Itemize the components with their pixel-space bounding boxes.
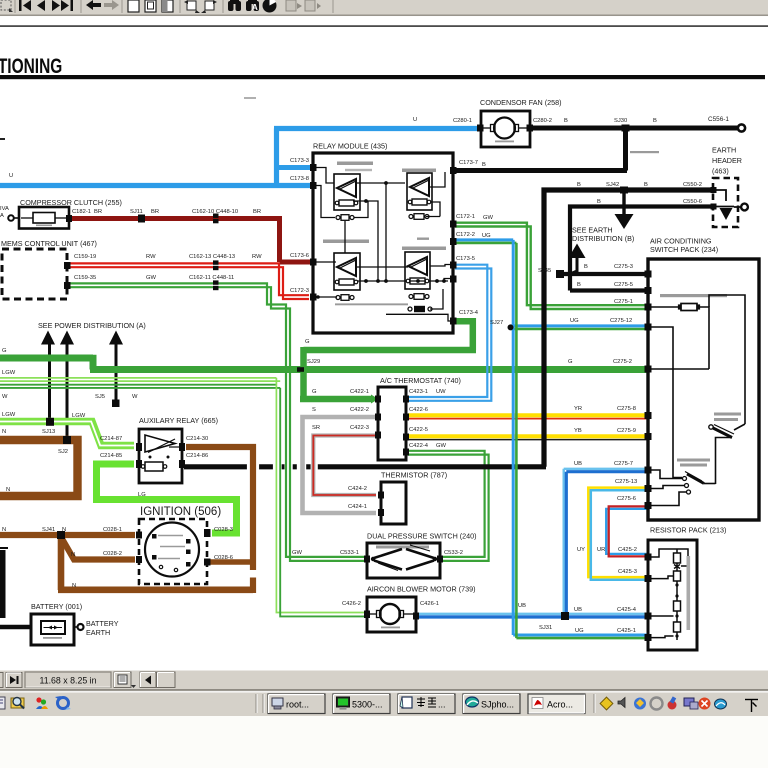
svg-text:C533-1: C533-1	[340, 550, 359, 556]
switch pack fuse	[651, 295, 745, 478]
svg-text:C214-85: C214-85	[100, 453, 122, 459]
junction SJ29 tick	[297, 367, 304, 372]
compressor clutch box (255)	[14, 207, 69, 229]
svg-text:C425-1: C425-1	[617, 628, 636, 634]
svg-text:SJ27: SJ27	[490, 320, 503, 326]
svg-text:C275-9: C275-9	[617, 428, 636, 434]
svg-text:C550-2: C550-2	[683, 182, 702, 188]
wire BR dark red: compressor clutch to relay C173-6	[69, 219, 310, 263]
relay sub-unit R4	[405, 252, 430, 289]
svg-text:...: ...	[438, 700, 446, 710]
svg-text:SJ11: SJ11	[130, 209, 143, 215]
wire U blue: left edge to condenser fan C280-1	[0, 129, 477, 189]
page size box 11.68 x 8.25 in	[25, 672, 111, 688]
svg-text:C275-12: C275-12	[610, 318, 632, 324]
svg-text:C533-2: C533-2	[444, 550, 463, 556]
svg-text:UR: UR	[597, 547, 605, 553]
svg-text:B: B	[644, 182, 648, 188]
A/C thermostat (740) box	[378, 387, 406, 460]
svg-text:SEE POWER DISTRIBUTION (A): SEE POWER DISTRIBUTION (A)	[38, 321, 146, 330]
wire GW pair: thermostat C422-4 loop to dual pressure C533-2	[408, 451, 485, 557]
wire N brown: SJ41 down and bottom loop	[58, 537, 253, 590]
toolbar nav buttons first/prev/next/last page	[19, 0, 73, 11]
svg-text:N: N	[62, 527, 66, 533]
svg-text:SJ5: SJ5	[95, 394, 105, 400]
svg-text:B: B	[564, 118, 568, 124]
toolbar rotate/zoom icons	[187, 1, 214, 10]
svg-text:C425-4: C425-4	[617, 607, 637, 613]
wire N brown: left U loop	[0, 440, 78, 496]
svg-text:TIONING: TIONING	[0, 53, 62, 77]
taskbar buttons	[268, 694, 758, 714]
junction SJ31	[561, 612, 569, 620]
svg-text:C425-2: C425-2	[618, 547, 637, 553]
svg-text:C275-1: C275-1	[614, 299, 633, 305]
svg-text:C422-6: C422-6	[409, 407, 428, 413]
svg-text:C173-6: C173-6	[290, 253, 309, 259]
scrollbar left arrow + thumb	[140, 672, 156, 688]
wire labels	[0, 116, 729, 634]
svg-text:C425-3: C425-3	[618, 569, 637, 575]
title rule	[0, 75, 765, 79]
junction SJ11	[138, 215, 145, 223]
connector C556-1 ring terminal	[738, 124, 745, 131]
MEMS control unit (467) dashed box	[2, 249, 67, 299]
svg-text:A: A	[252, 3, 258, 12]
wire UG horizontals: SJ31 row to C425-1	[513, 634, 648, 637]
svg-text:C214-87: C214-87	[100, 436, 122, 442]
earth header (463) dashed box	[713, 178, 741, 227]
svg-text:SR: SR	[312, 425, 320, 431]
junction SJ42	[620, 187, 628, 194]
svg-text:N: N	[2, 527, 6, 533]
svg-text:C028-3: C028-3	[214, 527, 233, 533]
junction SJ13	[46, 418, 54, 426]
svg-text:C162-11 C448-11: C162-11 C448-11	[189, 275, 234, 281]
wire S grey: thermostat C422-2 loop to thermistor C424-1	[303, 417, 377, 513]
svg-text:B: B	[482, 162, 486, 168]
svg-text:GW: GW	[436, 443, 447, 449]
button untitled notepad (CJK faked)	[398, 694, 455, 714]
junction SJ30	[622, 125, 630, 132]
svg-text:THERMISTOR (787): THERMISTOR (787)	[381, 471, 447, 480]
svg-text:U: U	[9, 173, 13, 179]
wire N brown: SJ41 diagonal to C028-2	[61, 537, 135, 560]
svg-text:RW: RW	[146, 254, 156, 260]
wire U stub to relay C173-3	[277, 165, 312, 170]
wire LG bright green: aux relay C214-85 loop to ignition C028-3	[97, 464, 237, 533]
battery (001) box	[31, 614, 74, 645]
svg-text:C275-5: C275-5	[614, 282, 633, 288]
svg-text:C214-86: C214-86	[186, 453, 208, 459]
svg-text:C172-1: C172-1	[456, 214, 475, 220]
wire U stub to relay C173-8	[277, 183, 312, 188]
svg-text:UB: UB	[574, 461, 582, 467]
svg-text:(463): (463)	[712, 167, 729, 176]
wire UB: switch pack C275-7 stub	[564, 468, 648, 470]
quicklaunch icon 1 (cut)	[0, 697, 5, 709]
svg-text:UB: UB	[574, 607, 582, 613]
svg-text:C275-6: C275-6	[617, 496, 636, 502]
svg-text:C173-3: C173-3	[290, 158, 309, 164]
svg-text:B: B	[577, 282, 581, 288]
svg-text:SWITCH PACK (234): SWITCH PACK (234)	[650, 245, 718, 254]
button Acro (pressed)	[528, 694, 585, 714]
svg-text:SJ31: SJ31	[539, 625, 552, 631]
CJK IME glyph (faked strokes)	[745, 700, 758, 713]
svg-text:B: B	[653, 118, 657, 124]
svg-text:C422-4: C422-4	[409, 443, 429, 449]
dual pressure switch (240) box	[367, 543, 440, 578]
svg-text:AIRCON BLOWER MOTOR (739): AIRCON BLOWER MOTOR (739)	[367, 585, 476, 594]
wire G green main: left edge to switch pack C275-2	[0, 355, 648, 370]
toolbar binoculars find icons	[228, 0, 259, 11]
inline connector C162-13/C448-13	[213, 260, 219, 264]
button 5300	[333, 694, 390, 714]
relay module grey redaction bars	[337, 162, 373, 166]
svg-text:C028-6: C028-6	[214, 555, 233, 561]
svg-text:C275-2: C275-2	[613, 359, 632, 365]
svg-text:BATTERY (001): BATTERY (001)	[31, 602, 82, 611]
relay sub-unit R1	[334, 174, 360, 210]
svg-text:N: N	[2, 429, 6, 435]
relay module edge terminals	[310, 164, 457, 325]
svg-text:C214-30: C214-30	[186, 436, 208, 442]
svg-text:CONDENSOR FAN (258): CONDENSOR FAN (258)	[480, 98, 561, 107]
wire UG vertical: C172-2 through SJ27 down to C425-1 row	[512, 240, 515, 635]
svg-text:DISTRIBUTION (B): DISTRIBUTION (B)	[572, 234, 634, 243]
svg-text:UB: UB	[518, 603, 526, 609]
relay sub-unit R3	[334, 253, 360, 290]
toolbar icon: marquee select	[1, 0, 11, 10]
see power distribution arrow 2 with stem to SJ2	[60, 331, 74, 345]
svg-text:LGW: LGW	[72, 413, 86, 419]
svg-text:G: G	[568, 359, 573, 365]
air conditioning switch pack (234) box	[648, 259, 759, 520]
wire UB vertical: C275-7 down to SJ31	[563, 469, 565, 614]
quicklaunch icon 2 folder+magnifier	[11, 698, 24, 708]
svg-text:LGW: LGW	[2, 412, 16, 418]
junction SJ41	[57, 531, 65, 539]
see power distribution arrow 3 with stem to SJ5	[109, 331, 123, 345]
wire N brown: ignition C028-6 stub	[210, 559, 250, 564]
wire YR yellow/red: thermostat C422-6 to C275-8	[408, 413, 648, 417]
svg-text:S: S	[312, 407, 316, 413]
earth distribution up arrow at SJ45	[569, 244, 586, 259]
svg-text:C028-2: C028-2	[103, 551, 122, 557]
svg-text:GW: GW	[146, 275, 157, 281]
svg-text:C159-35: C159-35	[74, 275, 96, 281]
button root	[268, 694, 325, 714]
svg-text:HEADER: HEADER	[712, 156, 742, 165]
svg-text:BR: BR	[253, 209, 261, 215]
svg-text:SJ42: SJ42	[606, 182, 619, 188]
svg-text:BATTERY: BATTERY	[86, 619, 119, 628]
svg-text:BR: BR	[94, 209, 102, 215]
svg-text:5300-...: 5300-...	[352, 700, 383, 710]
resistor pack (213) box	[648, 540, 697, 650]
svg-text:A/C THERMOSTAT (740): A/C THERMOSTAT (740)	[380, 376, 461, 385]
relay sub-unit R2	[407, 173, 432, 210]
wire W pair: left edge rows	[0, 384, 276, 386]
svg-text:C422-2: C422-2	[350, 407, 369, 413]
svg-text:UG: UG	[570, 318, 579, 324]
svg-text:U: U	[413, 117, 417, 123]
svg-text:C162-10 C448-10: C162-10 C448-10	[192, 209, 238, 215]
ignition switch (506) dashed box	[139, 519, 207, 584]
tray icons	[600, 696, 726, 709]
wire B: C550-6 row with vertical to C275-5	[570, 207, 714, 291]
svg-text:W: W	[2, 394, 8, 400]
relay module internal wiring	[316, 168, 450, 322]
stray grey dash top	[244, 97, 256, 99]
taskbar separators	[255, 694, 257, 713]
svg-text:B: B	[577, 182, 581, 188]
wire UW pair: relay C173-5 to thermostat C423-1	[408, 265, 487, 397]
left margin tick	[0, 138, 5, 140]
svg-text:EARTH: EARTH	[712, 146, 736, 155]
svg-text:N: N	[6, 487, 10, 493]
junction SJ2	[63, 436, 71, 444]
svg-text:YB: YB	[574, 428, 582, 434]
svg-text:11.68 x 8.25 in: 11.68 x 8.25 in	[39, 676, 96, 686]
svg-text:root...: root...	[286, 700, 309, 710]
svg-text:C422-3: C422-3	[350, 425, 369, 431]
switch pack edge terminals	[645, 271, 652, 510]
svg-text:RELAY MODULE (435): RELAY MODULE (435)	[313, 142, 387, 151]
toolbar separators	[15, 0, 333, 13]
svg-text:C424-1: C424-1	[348, 504, 367, 510]
svg-text:C173-4: C173-4	[459, 310, 479, 316]
svg-text:C423-1: C423-1	[409, 389, 428, 395]
button SJpho	[463, 694, 520, 714]
svg-text:SJ30: SJ30	[614, 118, 627, 124]
wire B: condenser fan C280-2 to C556-1	[533, 126, 739, 131]
svg-text:G: G	[2, 348, 7, 354]
svg-text:C550-6: C550-6	[683, 199, 702, 205]
svg-text:C422-5: C422-5	[409, 427, 428, 433]
switch pack mid grey bars	[714, 413, 741, 416]
wire G branch: SJ29 down to thermostat C422-1	[300, 372, 371, 399]
wire RW red pair: MEMS C159-19 to relay C172-3	[67, 263, 309, 295]
svg-text:W: W	[132, 394, 138, 400]
svg-text:C280-2: C280-2	[533, 118, 552, 124]
wire UB horizontal: blower C426-1 to C425-4	[413, 613, 648, 615]
svg-text:EARTH: EARTH	[86, 628, 110, 637]
svg-text:SJ29: SJ29	[307, 359, 320, 365]
wire GW pair: MEMS C159-35 down to dual pressure C533-1	[67, 283, 365, 557]
stray grey dash right	[630, 151, 659, 153]
quicklaunch icon 3 msn people	[36, 697, 41, 702]
svg-text:C422-1: C422-1	[350, 389, 369, 395]
wire LGW/W verticals: down to blower C426-2	[276, 378, 365, 613]
svg-text:B: B	[597, 199, 601, 205]
svg-text:UW: UW	[436, 389, 446, 395]
svg-text:RESISTOR PACK (213): RESISTOR PACK (213)	[650, 526, 726, 535]
aux relay (665) box	[139, 429, 182, 483]
aircon blower motor (739) box	[367, 597, 416, 632]
svg-text:C159-19: C159-19	[74, 254, 96, 260]
wire B: SJ30 down to relay C173-7	[455, 128, 627, 171]
relay coil fuse elements	[336, 214, 432, 311]
svg-text:C172-2: C172-2	[456, 232, 475, 238]
inline connector C162-10/C448-10	[213, 214, 219, 218]
wire G branch: relay C173-4 loop to SJ29	[304, 321, 477, 366]
svg-text:C173-8: C173-8	[290, 176, 309, 182]
svg-text:C275-3: C275-3	[614, 264, 633, 270]
svg-text:BR: BR	[151, 209, 159, 215]
toolbar greyed icons	[286, 0, 315, 11]
svg-text:N: N	[72, 583, 76, 589]
svg-text:C275-7: C275-7	[614, 461, 633, 467]
page layout button	[114, 672, 131, 688]
wire YB yellow/black: thermostat C422-5 to C275-9	[408, 434, 648, 438]
svg-text:C172-3: C172-3	[290, 288, 309, 294]
wire SR grey/red: thermostat C422-3 loop to thermistor C424-2	[313, 436, 376, 496]
svg-text:UG: UG	[482, 233, 491, 239]
svg-text:C182-1: C182-1	[72, 209, 91, 215]
svg-text:C173-7: C173-7	[459, 160, 478, 166]
switch pack mid switch	[713, 424, 745, 484]
svg-text:C275-8: C275-8	[617, 406, 636, 412]
svg-text:UG: UG	[575, 628, 584, 634]
svg-text:GW: GW	[292, 550, 303, 556]
svg-text:G: G	[305, 339, 310, 345]
junction SJ27 dot	[508, 324, 514, 330]
svg-text:MEMS CONTROL UNIT (467): MEMS CONTROL UNIT (467)	[1, 239, 97, 248]
svg-text:SJ2: SJ2	[58, 449, 68, 455]
svg-text:C028-1: C028-1	[103, 527, 122, 533]
wire LGW thin pair: left edge rows	[0, 377, 276, 379]
svg-text:RW: RW	[252, 254, 262, 260]
svg-text:C280-1: C280-1	[453, 118, 472, 124]
wire N brown: aux relay C214-30 right and down (with break)	[186, 447, 253, 570]
svg-text:C556-1: C556-1	[708, 116, 729, 123]
wire UR hook: C275-6 to resistor pack C425-2	[606, 509, 648, 554]
svg-text:SJ45: SJ45	[538, 268, 551, 274]
svg-text:COMPRESSOR CLUTCH (255): COMPRESSOR CLUTCH (255)	[20, 198, 122, 207]
wire LGW thick: left edge to aux relay C214-87	[0, 422, 134, 446]
svg-text:LGW: LGW	[2, 370, 16, 376]
junction SJ5	[112, 400, 120, 408]
quicklaunch icon 4 blue swirl	[58, 698, 69, 709]
tray separator	[593, 694, 595, 713]
svg-text:SJ41: SJ41	[42, 527, 55, 533]
switch pack lower grey bars	[677, 459, 710, 462]
wire B earth bus: C550-2 row, long vertical to C214-86 line	[184, 190, 714, 467]
wire B: battery feed	[0, 625, 32, 629]
toolbar back/forward arrows	[86, 0, 101, 10]
svg-text:AUXILARY RELAY (665): AUXILARY RELAY (665)	[139, 416, 218, 425]
svg-text:GW: GW	[483, 215, 494, 221]
svg-text:SJpho...: SJpho...	[481, 700, 514, 710]
wire B: SJ45 row to C275-3	[560, 272, 648, 276]
svg-text:C424-2: C424-2	[348, 486, 367, 492]
svg-text:DUAL PRESSURE SWITCH (240): DUAL PRESSURE SWITCH (240)	[367, 532, 477, 541]
svg-text:SJ13: SJ13	[42, 429, 55, 435]
black component block at left edge	[0, 550, 6, 618]
see power distribution arrow 1 with stem to SJ13	[41, 331, 55, 345]
svg-text:YR: YR	[574, 406, 582, 412]
toolbar pie icon	[263, 0, 277, 13]
thermistor (787) box	[381, 482, 406, 524]
condenser fan box (258)	[481, 111, 530, 147]
wire N brown: left edge through SJ41 to ignition C028-1	[0, 532, 135, 538]
earth distribution down arrow at SJ42	[622, 192, 625, 214]
svg-text:C426-1: C426-1	[420, 601, 439, 607]
svg-text:C162-13 C448-13: C162-13 C448-13	[189, 254, 235, 260]
component titles	[1, 98, 742, 637]
svg-text:A: A	[0, 213, 4, 219]
switch pack lower switch	[651, 470, 716, 506]
svg-text:IVA: IVA	[0, 206, 9, 212]
junction SJ45	[556, 270, 564, 278]
wire UY hook: C275-13 to resistor pack C425-3	[588, 488, 648, 577]
white crossing gaps on black C214-86 run	[247, 461, 318, 472]
svg-text:N: N	[71, 552, 75, 558]
svg-text:LG: LG	[138, 492, 146, 498]
wire UG horizontals: relay C172-2 / SJ27 to C275-12	[455, 238, 513, 241]
svg-text:Acro...: Acro...	[547, 700, 573, 710]
inline connector C162-11/C448-11	[213, 280, 219, 284]
svg-text:C275-13: C275-13	[615, 479, 637, 485]
svg-text:C173-5: C173-5	[456, 256, 475, 262]
svg-text:C426-2: C426-2	[342, 601, 361, 607]
svg-text:G: G	[312, 389, 317, 395]
svg-text:B: B	[584, 264, 588, 270]
svg-text:UY: UY	[577, 547, 585, 553]
wire GW pair: relay C172-1 to switch pack C275-1	[455, 223, 648, 306]
relay module (435) box	[313, 153, 453, 333]
svg-text:IGNITION (506): IGNITION (506)	[140, 506, 221, 518]
toolbar page view icons	[128, 0, 173, 12]
